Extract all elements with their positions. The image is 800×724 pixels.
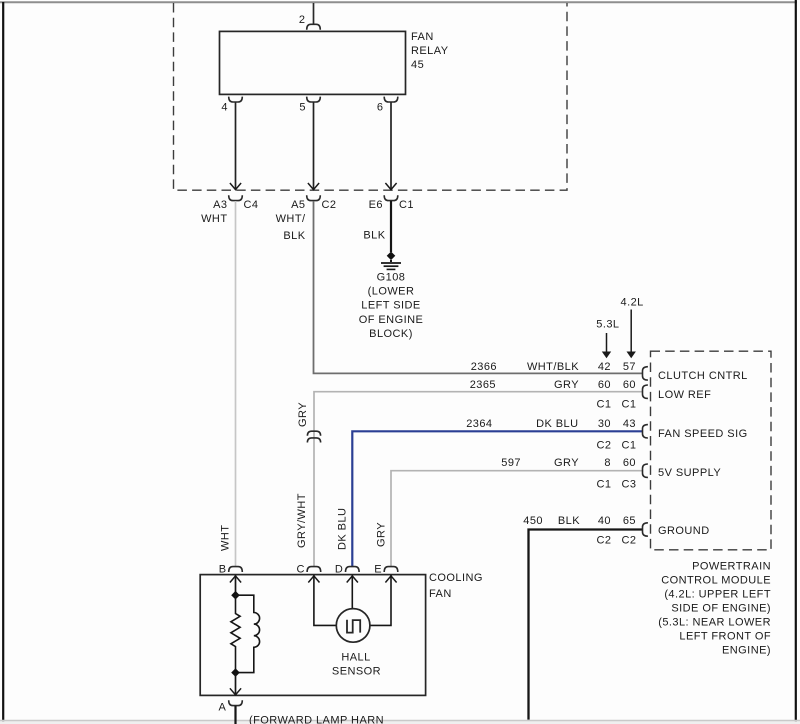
pin numbers CLUTCH CNTRL terminal [598, 361, 636, 373]
motor resistor element [231, 595, 240, 672]
svg-text:A3: A3 [213, 199, 227, 211]
hall sensor U2 [332, 609, 381, 678]
wire fan pin E to hall sensor [370, 575, 391, 625]
wire entry arrow pin B [230, 576, 241, 583]
svg-text:WHT/BLK: WHT/BLK [527, 361, 579, 373]
wire 2365 GRY / GRY-WHT from PCM LOW REF to fan pin C [296, 379, 642, 566]
svg-text:FAN: FAN [411, 31, 434, 43]
svg-text:(LOWER: (LOWER [368, 286, 415, 298]
wire entry arrow pin E [385, 576, 396, 583]
ground G108 [359, 260, 424, 340]
svg-text:POWERTRAIN: POWERTRAIN [692, 560, 771, 572]
svg-text:B: B [219, 564, 227, 576]
wire BLK from C1 to ground G108 [390, 201, 392, 252]
label 5.3L column [596, 319, 619, 359]
svg-text:OF ENGINE: OF ENGINE [359, 314, 424, 326]
wire entry arrow pin C [308, 576, 319, 583]
svg-text:DK BLU: DK BLU [536, 418, 578, 430]
svg-text:2365: 2365 [470, 379, 496, 391]
wire motor branch to fan pin A [230, 673, 241, 695]
svg-text:GRY/WHT: GRY/WHT [296, 493, 308, 548]
svg-text:SENSOR: SENSOR [332, 665, 381, 677]
pin numbers GROUND terminal [597, 515, 637, 547]
svg-text:2: 2 [299, 14, 306, 26]
wire relay pin 6 to connector [385, 103, 396, 190]
svg-text:CLUTCH CNTRL: CLUTCH CNTRL [658, 370, 748, 382]
svg-text:C2: C2 [622, 535, 637, 547]
svg-text:RELAY: RELAY [411, 45, 449, 57]
pin numbers 5V SUPPLY terminal [597, 457, 637, 491]
svg-text:ENGINE): ENGINE) [722, 645, 771, 657]
connector socket at PCM LOW REF [643, 385, 648, 398]
wire entry arrow pin D [347, 576, 358, 583]
fan pin B [219, 564, 243, 576]
wire 597 GRY from PCM 5V SUPPLY to fan pin E [376, 457, 643, 566]
svg-text:8: 8 [604, 457, 611, 469]
wire relay pin 2 feed [313, 3, 315, 24]
svg-text:WHT: WHT [220, 525, 232, 551]
wire relay pin 5 to connector [308, 103, 319, 190]
wire fan pin D to hall sensor [351, 575, 353, 609]
svg-text:(5.3L: NEAR LOWER: (5.3L: NEAR LOWER [658, 617, 771, 629]
svg-text:(4.2L: UPPER LEFT: (4.2L: UPPER LEFT [664, 588, 771, 600]
svg-text:597: 597 [501, 457, 521, 469]
svg-text:C: C [296, 564, 304, 576]
wire fan pin A to forward lamp harness [234, 706, 236, 724]
svg-text:43: 43 [623, 418, 636, 430]
wire WHT from C4 to cooling fan pin B [220, 201, 236, 566]
pin numbers LOW REF terminal [597, 379, 637, 411]
svg-text:GRY: GRY [297, 402, 309, 427]
svg-text:4.2L: 4.2L [621, 297, 644, 309]
fan pin C [296, 564, 320, 576]
svg-text:57: 57 [623, 361, 636, 373]
svg-text:WHT/: WHT/ [276, 213, 306, 225]
wire fan pin C to hall sensor [314, 575, 336, 625]
svg-text:C1: C1 [622, 399, 637, 411]
svg-text:A: A [219, 702, 227, 714]
wire 2364 DK BLU from PCM FAN SPEED SIG to fan pin D [337, 418, 643, 566]
svg-text:450: 450 [523, 515, 543, 527]
svg-text:LOW REF: LOW REF [658, 389, 711, 401]
underhood electrical center (dashed outline) [174, 3, 568, 190]
wire 450 BLK from PCM GROUND down off page [523, 515, 642, 720]
svg-text:C3: C3 [622, 479, 637, 491]
svg-text:C2: C2 [322, 199, 337, 211]
svg-text:FAN: FAN [429, 588, 452, 600]
svg-text:40: 40 [598, 515, 611, 527]
pin 2 [299, 14, 320, 30]
svg-text:C4: C4 [244, 199, 259, 211]
svg-text:4: 4 [221, 102, 228, 114]
svg-text:G108: G108 [377, 272, 406, 284]
svg-text:GRY: GRY [554, 379, 579, 391]
svg-text:65: 65 [623, 515, 636, 527]
in-line connector on GRY wire [307, 431, 320, 442]
wire label WHT/BLK (A5) [276, 213, 306, 242]
svg-text:DK BLU: DK BLU [337, 508, 349, 550]
wire relay pin 4 to connector [230, 103, 241, 190]
svg-text:C1: C1 [597, 479, 612, 491]
wire fan pin B to motor branch [235, 575, 237, 595]
svg-text:SIDE OF ENGINE): SIDE OF ENGINE) [671, 602, 771, 614]
svg-text:(FORWARD LAMP HARN: (FORWARD LAMP HARN [249, 715, 384, 724]
svg-text:FAN SPEED SIG: FAN SPEED SIG [658, 428, 748, 440]
cooling fan motor assembly box [200, 572, 483, 695]
svg-text:BLK: BLK [363, 230, 385, 242]
svg-text:BLK: BLK [558, 515, 580, 527]
svg-text:5: 5 [299, 102, 306, 114]
svg-text:D: D [335, 564, 343, 576]
svg-text:6: 6 [377, 102, 384, 114]
svg-text:2364: 2364 [466, 418, 492, 430]
svg-text:E: E [374, 564, 382, 576]
junction top of motor branch [231, 591, 240, 600]
fan pin E [374, 564, 398, 576]
svg-text:LEFT SIDE: LEFT SIDE [361, 300, 420, 312]
svg-text:30: 30 [598, 418, 611, 430]
svg-text:C1: C1 [597, 399, 612, 411]
svg-text:GROUND: GROUND [658, 525, 710, 537]
svg-text:CONTROL MODULE: CONTROL MODULE [661, 574, 771, 586]
svg-text:GRY: GRY [554, 457, 579, 469]
connector socket at PCM FAN SPEED SIG [643, 425, 648, 438]
svg-text:60: 60 [598, 379, 611, 391]
svg-text:5V SUPPLY: 5V SUPPLY [658, 467, 721, 479]
svg-text:C1: C1 [399, 199, 414, 211]
svg-text:COOLING: COOLING [429, 572, 483, 584]
PCM location caption [658, 560, 771, 656]
pin 5 [299, 97, 320, 114]
svg-text:HALL: HALL [341, 652, 370, 664]
svg-text:C2: C2 [597, 440, 612, 452]
pin numbers FAN SPEED SIG terminal [597, 418, 637, 452]
fan pin A [219, 700, 243, 713]
pin 6 [377, 97, 398, 114]
connector C2 pin A5 [291, 195, 336, 211]
connector socket at PCM CLUTCH CNTRL [643, 367, 648, 380]
label 4.2L column [621, 297, 644, 359]
svg-text:60: 60 [623, 379, 636, 391]
connector C4 pin A3 [213, 195, 258, 211]
svg-text:2366: 2366 [471, 361, 497, 373]
motor winding (coil) element [236, 595, 260, 672]
connector C1 pin E6 [369, 195, 414, 211]
svg-text:42: 42 [598, 361, 611, 373]
connector socket at PCM 5V SUPPLY [643, 464, 648, 477]
splice junction above G108 [387, 252, 396, 261]
svg-text:BLOCK): BLOCK) [369, 328, 413, 340]
fan pin D [335, 564, 359, 576]
svg-text:E6: E6 [369, 199, 383, 211]
svg-text:C1: C1 [622, 440, 637, 452]
svg-text:C2: C2 [597, 535, 612, 547]
svg-text:5.3L: 5.3L [596, 319, 619, 331]
svg-text:A5: A5 [291, 199, 305, 211]
svg-text:60: 60 [623, 457, 636, 469]
fan relay 45 [220, 31, 449, 94]
svg-text:BLK: BLK [283, 230, 305, 242]
pin 4 [221, 97, 242, 114]
powertrain control module U1 (dashed box) [651, 351, 772, 550]
svg-text:WHT: WHT [201, 213, 227, 225]
wire 2366 WHT/BLK from C2 to PCM CLUTCH CNTRL [314, 201, 643, 373]
junction bottom of motor branch [231, 668, 240, 677]
svg-text:45: 45 [411, 59, 424, 71]
svg-text:LEFT FRONT OF: LEFT FRONT OF [679, 631, 771, 643]
connector socket at PCM GROUND [643, 523, 648, 536]
svg-text:GRY: GRY [376, 522, 388, 547]
